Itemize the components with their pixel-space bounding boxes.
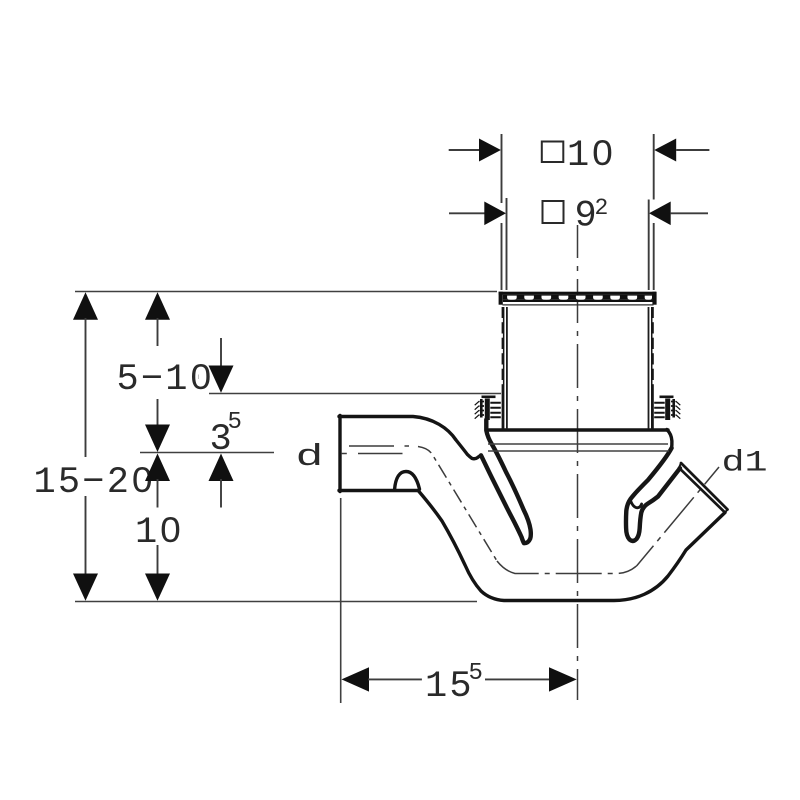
centerline trap bottom and outlet — [497, 467, 719, 574]
dimension 5-10 chain lower arrow — [145, 399, 170, 452]
extension lines row1 — [502, 134, 654, 290]
svg-text:5: 5 — [469, 660, 483, 687]
svg-text:d: d — [296, 439, 324, 474]
reference line bottom — [75, 601, 477, 603]
dimension 5-10 chain upper arrow — [145, 292, 170, 346]
trap body: inlet pipe mouth — [338, 416, 341, 492]
label d1 — [722, 446, 768, 480]
trap body: right dip tube and outlet upper wall — [626, 448, 680, 541]
label d — [296, 439, 324, 474]
riser wall thread notches — [501, 318, 655, 384]
svg-text:15−20: 15−20 — [34, 462, 156, 504]
trap body: inlet pipe bottom — [339, 489, 419, 492]
dimension 10 upper arrow — [145, 454, 170, 508]
outlet inner lip notch — [630, 500, 641, 508]
dimension text 15-5 — [425, 660, 483, 708]
collar inner lines — [488, 444, 669, 451]
centerline trap channel descending — [418, 447, 497, 562]
grate slots — [507, 296, 652, 300]
reference line pipe axis (3-5 bottom) — [140, 452, 274, 454]
flange lower lines — [503, 300, 654, 305]
svg-text:5: 5 — [228, 409, 242, 436]
extension lines row2 — [507, 198, 649, 290]
trap body: left dip tube — [481, 420, 531, 544]
centerline pipe d horizontal upper — [349, 445, 409, 447]
collar top edge — [489, 428, 668, 431]
dimension text square-9-2 row2 — [543, 195, 609, 238]
riser left wall — [503, 307, 507, 429]
svg-text:10: 10 — [567, 135, 616, 177]
outlet d1 flange — [679, 463, 728, 513]
dimension text square-10 top row — [542, 135, 616, 177]
reference line top (floor level) — [75, 291, 497, 293]
trap body: outer bottom and outlet lower wall — [419, 492, 725, 601]
dimension 10 lower arrow — [145, 545, 170, 601]
left fastening clip — [475, 397, 501, 420]
dimension arrow right row2 — [649, 202, 708, 226]
dimension 15-20 vertical line — [73, 292, 98, 600]
trap body: weir bump — [395, 472, 420, 491]
riser right wall — [649, 307, 653, 429]
reference line 5-10 bottom — [209, 393, 501, 395]
svg-text:d1: d1 — [722, 446, 768, 480]
dimension 3-5 lower arrow — [209, 454, 234, 508]
trap body: inlet pipe top with notch — [339, 417, 481, 459]
dimension 3-5 upper arrow — [209, 338, 234, 393]
top grate flange band — [499, 292, 657, 305]
centerline pipe d horizontal lower — [342, 453, 403, 455]
dimension arrow left row1 — [449, 139, 501, 162]
svg-text:15: 15 — [425, 666, 474, 708]
dimension arrow right row1 — [654, 139, 709, 162]
zero glyph dot masks — [140, 149, 606, 534]
right fastening clip — [654, 397, 680, 420]
centerline vertical — [577, 225, 579, 700]
svg-text:10: 10 — [135, 512, 184, 554]
svg-text:2: 2 — [595, 195, 609, 221]
trap body: right collar corner — [667, 430, 672, 449]
dimension text 3-5 — [210, 409, 242, 461]
dimension arrow left row2 — [449, 202, 506, 226]
dimension 15-5 bottom — [341, 498, 577, 703]
